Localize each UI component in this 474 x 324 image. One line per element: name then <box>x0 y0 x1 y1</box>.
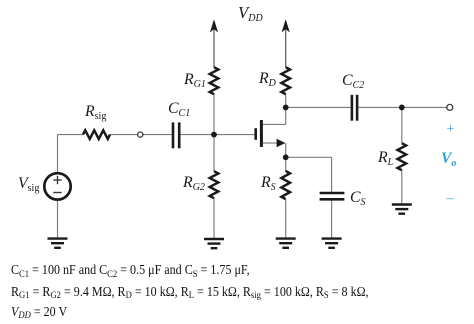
wire: transistor source lead <box>263 142 278 144</box>
resistor RD <box>281 67 290 94</box>
VDD arrow right <box>282 19 290 32</box>
input open terminal <box>138 132 143 137</box>
label RL <box>378 150 393 166</box>
node B: drain node <box>283 105 289 111</box>
ground (RG2) <box>204 239 224 248</box>
wire: CS branch vertical to top plate <box>331 157 333 192</box>
source Vsig plus sign <box>53 176 61 184</box>
wire: transistor drain lead <box>263 123 286 125</box>
wire: CC1 to gate (through gate node) <box>180 134 254 136</box>
wire: RD bottom through drain node to drain lead <box>285 94 287 124</box>
wire: drain node to CC2 <box>286 106 351 108</box>
label RG2 <box>183 175 205 191</box>
wire: RL bottom to ground <box>401 170 403 204</box>
source Vsig minus sign <box>53 192 61 194</box>
label RD <box>259 71 276 87</box>
label Rsig <box>85 104 106 120</box>
wire: RG1 bottom through gate node to RG2 top <box>213 94 215 171</box>
ground (Vsig) <box>48 239 68 248</box>
wire: source node to CS branch <box>286 156 332 158</box>
transistor Q1 source arrow <box>277 139 286 147</box>
wire: Vsig bottom to ground <box>57 200 59 238</box>
resistor Rsig <box>83 130 110 139</box>
label CC2 <box>342 73 364 89</box>
VDD arrow left <box>210 19 218 32</box>
node D: output node <box>399 105 405 111</box>
wire: open node to CC1 <box>143 134 172 136</box>
resistor RS <box>281 171 290 199</box>
ground (RS) <box>276 239 296 248</box>
wire: Vsig top to Rsig <box>58 134 84 136</box>
label output plus <box>447 123 455 137</box>
transistor Q1 gate bar <box>254 128 257 140</box>
wire: RG2 bottom to ground <box>213 198 215 238</box>
caption line 2 <box>11 285 369 299</box>
resistor RG1 <box>210 67 219 94</box>
wire: source corner down to source node <box>285 143 287 171</box>
node A: gate node <box>211 132 217 138</box>
resistor RG2 <box>210 171 219 198</box>
capacitor CS <box>320 193 345 199</box>
capacitor CC2 <box>352 95 357 121</box>
caption line 1 <box>11 263 250 277</box>
resistor RL <box>397 143 406 170</box>
wire: VDD arrow shaft to RD <box>285 24 287 67</box>
wire: CC2 to output terminal <box>358 106 446 108</box>
label RG1 <box>184 72 206 88</box>
node C: source node <box>283 154 289 160</box>
wire: output node down to RL <box>401 107 403 143</box>
label output minus <box>447 192 454 206</box>
capacitor CC1 <box>173 122 179 148</box>
label CC1 <box>168 101 190 117</box>
wire: Rsig to input open node <box>110 134 138 136</box>
wire: CS bottom plate to ground <box>331 200 333 237</box>
ground (RL) <box>392 205 412 214</box>
ground (CS) <box>322 239 342 248</box>
label VDD <box>238 5 263 22</box>
wire: VDD arrow shaft to RG1 <box>213 24 215 67</box>
wire: RS bottom to ground <box>285 200 287 238</box>
caption line 3 <box>11 305 67 319</box>
label RS <box>261 175 276 191</box>
wire: Vsig branch vertical upper <box>57 135 59 174</box>
label Vsig <box>18 176 39 192</box>
transistor Q1 channel bar <box>260 120 263 147</box>
output open terminal <box>447 104 453 110</box>
source Vsig circle <box>44 173 70 199</box>
label output vo <box>441 151 456 167</box>
label CS <box>350 190 366 206</box>
